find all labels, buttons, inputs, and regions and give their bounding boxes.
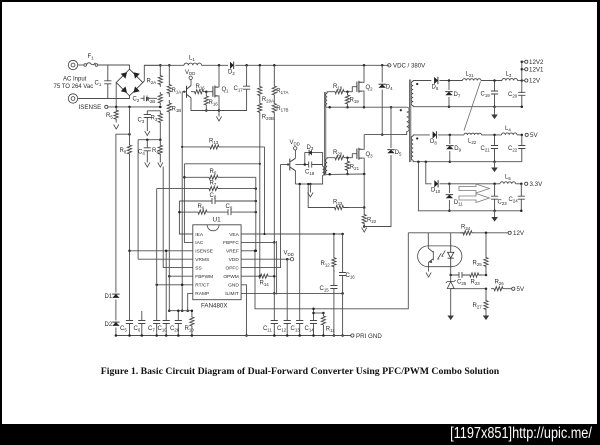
wire R3 to node	[159, 124, 161, 140]
resistor R3	[158, 111, 162, 124]
junction R2B bottom	[159, 106, 162, 109]
resistor R20	[334, 156, 345, 160]
diode D8 body	[433, 131, 437, 138]
ground zener	[447, 316, 454, 321]
wire D5 upper	[390, 107, 392, 148]
wire pin FBPWM	[169, 275, 193, 277]
wire C17 upper	[246, 65, 248, 82]
wire R1B down to FBPWM	[168, 115, 170, 276]
junction D4 rail	[381, 64, 384, 67]
wire primary top	[322, 165, 324, 167]
wire R16v to loop	[205, 106, 207, 111]
wire pin ILIMIT	[241, 292, 343, 294]
wire pin VDD	[241, 258, 287, 260]
wire opto to primary feedback	[255, 233, 408, 309]
wire D7 lower	[448, 97, 450, 107]
junction C21 top	[493, 134, 496, 137]
capacitor C23	[491, 184, 498, 211]
resistor R13	[205, 145, 224, 149]
capacitor C20	[518, 92, 525, 106]
diode D1 body	[112, 294, 119, 298]
wire 12V stub	[522, 80, 525, 82]
coupling diagonal L21-L22	[464, 82, 481, 131]
wire pin RT/CT	[157, 284, 193, 286]
ground opto	[426, 273, 431, 278]
wire R7 row right	[223, 188, 256, 190]
wire sec upper top to R18	[327, 92, 334, 94]
junction R3 bottom	[159, 139, 162, 142]
resistor R1B	[167, 100, 171, 115]
wire R8 to C5	[129, 156, 131, 319]
wire Q2 source to primary	[364, 106, 407, 108]
junction R21 bottom	[346, 173, 349, 176]
gate transformer primary body	[323, 166, 324, 175]
junction sec upper bottom	[328, 106, 331, 109]
junction D9 top	[449, 134, 452, 137]
opto phototransistor	[428, 240, 433, 272]
junction rail R1A	[168, 64, 171, 67]
resistor R27	[484, 289, 488, 312]
wire opto transistor lead	[427, 233, 429, 240]
resistor R9	[193, 210, 212, 214]
diode D9 body	[446, 146, 453, 150]
junction Q2 source node	[363, 106, 366, 109]
junction rail x156.7	[155, 334, 158, 337]
junction rail x287.2	[286, 334, 289, 337]
wire Q4 emitter loop	[191, 98, 219, 111]
junction R26 node	[485, 287, 488, 290]
capacitor C1 body	[104, 65, 111, 99]
watermark text	[450, 425, 592, 443]
capacitor C9	[212, 209, 256, 215]
wire Q3 source to R23 node	[363, 174, 365, 208]
wire Q5 emitter down	[294, 171, 296, 184]
capacitor C11	[271, 318, 278, 336]
wire ground rail	[116, 335, 351, 337]
wire pin VRMS	[138, 258, 193, 260]
capacitor C4	[144, 140, 151, 163]
junction C20 return	[521, 105, 524, 108]
junction D4 primary bottom	[381, 133, 384, 136]
junction 12V1	[521, 68, 524, 71]
wire C14 up	[313, 309, 315, 318]
mosfet Q1 body	[213, 86, 218, 98]
junction C24 bottom	[520, 210, 523, 213]
junction 3.3V tap left	[417, 160, 420, 163]
ground R22	[362, 228, 367, 233]
mosfet Q3 body	[357, 148, 362, 160]
junction sec lower bottom	[328, 173, 331, 176]
capacitor C22	[518, 135, 525, 162]
junction C19 top	[493, 79, 496, 82]
gate transformer T2 core	[325, 92, 326, 176]
junction rail x178.3	[177, 334, 180, 337]
junction C21 bottom	[493, 160, 496, 163]
terminal 3.3V out	[525, 182, 528, 185]
junction R16v top	[205, 90, 208, 93]
capacitor C12	[284, 318, 291, 336]
wire terminal1 to fuse	[78, 64, 84, 66]
terminal VDD pfc driver	[189, 76, 192, 79]
junction rail x115.9	[115, 334, 118, 337]
wire sec lower top to R20	[327, 158, 334, 159]
wire D3 to ground rail	[115, 328, 117, 336]
inductor L21 body	[463, 79, 482, 81]
junction rail x313.5	[312, 334, 315, 337]
wire pin IAC	[184, 177, 192, 242]
junction GND rail	[245, 334, 248, 337]
wire Q4 base feed long	[181, 92, 183, 311]
wire R23 right	[349, 207, 365, 209]
wire 3.3V row	[449, 183, 500, 185]
junction R21 top	[346, 156, 349, 159]
wire 12V riser	[521, 62, 523, 93]
wire bridge right vertex to top rail	[143, 65, 161, 82]
wire Q3 drain	[362, 135, 364, 150]
junction VREF feedback	[254, 250, 257, 253]
ground 3.3V return	[491, 217, 498, 222]
terminal VDD main	[290, 258, 293, 261]
junction rail x191.9	[191, 334, 194, 337]
junction D5 top	[390, 106, 393, 109]
wire FBPFC to ILIMIT	[273, 242, 275, 293]
terminal 12V out	[525, 79, 528, 82]
junction D11 bottom	[448, 210, 451, 213]
junction C16 VEA	[341, 233, 344, 236]
wire C15 to rail	[333, 296, 335, 336]
wire R27 bottom	[485, 312, 487, 316]
resistor R16 b	[204, 92, 208, 106]
resistor R23 fb	[467, 273, 483, 277]
wire R18 to Q2 gate	[345, 87, 357, 92]
phase dot secondary 12V	[416, 83, 418, 85]
junction C16 rail	[341, 334, 344, 337]
wire to C11	[273, 293, 275, 318]
ground R4	[158, 163, 163, 168]
wire sec12 top	[413, 81, 431, 82]
wire R6 row	[184, 176, 204, 178]
AC input terminal 2	[68, 94, 77, 103]
resistor R4	[158, 140, 162, 163]
ground 12V return	[491, 115, 498, 120]
wire R23 left	[308, 184, 329, 208]
wire gnd 3.3V stub	[494, 211, 496, 217]
junction FBPWM tap	[168, 275, 171, 278]
ISENSE terminal	[105, 105, 108, 108]
wire rail to R2A	[159, 65, 161, 73]
wire 12V2 stub	[522, 61, 525, 63]
inductor L1 body	[184, 63, 202, 65]
terminal 5V out	[525, 133, 528, 136]
wire D5 lower	[364, 155, 391, 227]
wire C16 to rail	[342, 294, 344, 336]
AC input terminal 2 inner	[71, 97, 75, 101]
resistor R1A	[167, 81, 171, 97]
phase dot primary	[400, 109, 402, 111]
op-amp U1 FAN480X outline	[193, 225, 241, 300]
resistor R19	[345, 92, 349, 108]
capacitor C8	[179, 198, 255, 204]
junction C8 right	[255, 200, 257, 203]
wire Q3 source	[362, 158, 364, 174]
terminal 12V2	[525, 60, 528, 63]
junction RTCT drop top	[181, 284, 184, 287]
junction base feed bus	[181, 309, 184, 312]
wire R16 to Q1 gate	[207, 91, 213, 93]
diode D10 body	[434, 180, 438, 187]
block arrow lower	[459, 194, 490, 203]
junction rail x323.4	[322, 334, 325, 337]
wire D11 lower	[448, 200, 450, 211]
capacitor C16	[339, 234, 346, 294]
gate transformer secondary upper body	[325, 93, 327, 107]
junction 12V node	[521, 79, 524, 82]
junction VDD node	[286, 258, 289, 261]
resistor R21	[345, 158, 349, 174]
wire pin ISENSE	[130, 250, 193, 252]
wire rail L1 to D2	[202, 64, 229, 66]
resistor R26	[491, 287, 506, 291]
wire D10 feed	[426, 162, 432, 184]
junction D7 bottom	[448, 105, 451, 108]
capacitor C18 body	[305, 162, 323, 168]
terminal VDC/380V	[388, 64, 391, 67]
wire opto LED bottom	[450, 267, 452, 275]
junction Q5 base	[287, 163, 289, 165]
resistor R11	[321, 313, 325, 336]
U1 notch	[207, 225, 219, 231]
junction RTCT C7	[155, 284, 158, 287]
junction bottom loop	[309, 183, 312, 186]
diode D7 body	[445, 92, 452, 96]
junction C13 loop	[298, 183, 301, 186]
resistor R7	[204, 187, 223, 191]
ground R5	[114, 125, 119, 130]
wire R13 left	[182, 146, 205, 148]
wire pin SS	[163, 167, 193, 268]
resistor R8	[127, 144, 131, 156]
wire sec upper bottom row	[327, 106, 364, 108]
block arrow upper	[459, 184, 490, 193]
wire R7 row left	[157, 188, 204, 190]
resistor R22	[362, 208, 366, 226]
junction R14 right	[273, 275, 276, 278]
junction C17 rail	[245, 64, 248, 67]
junction C23 bottom	[493, 210, 496, 213]
junction C22 top	[521, 134, 524, 137]
capacitor C5	[126, 318, 133, 336]
ground Q1 source	[216, 117, 221, 122]
secondary 5V body	[411, 136, 413, 160]
junction ISENSE-R2 string	[159, 106, 162, 109]
wire C7 line	[156, 189, 158, 318]
wire pin GND	[241, 285, 246, 336]
wire R20 to Q3 gate	[345, 154, 357, 158]
junction Q1 source loop	[218, 109, 221, 112]
diode D5 body	[387, 150, 394, 154]
resistor R14	[256, 274, 271, 278]
capacitor C17	[243, 82, 250, 94]
wire top rail left	[144, 64, 184, 66]
junction 12V2	[521, 61, 524, 64]
wire D9 lower	[449, 151, 451, 162]
wire gnd 5V stub	[494, 162, 496, 168]
junction R19 bottom	[346, 106, 349, 109]
wire C4R4 top	[138, 139, 160, 141]
terminal VDD pwm driver	[294, 147, 297, 150]
junction R13 left	[181, 146, 183, 148]
junction R19 top	[346, 90, 349, 93]
wire R6 row right	[223, 176, 256, 178]
wire ISENSE row	[108, 106, 160, 108]
wire R26 to 5V term	[506, 288, 512, 290]
capacitor C13	[296, 318, 303, 336]
wire D9 upper	[449, 135, 451, 144]
junction R7 right	[255, 187, 257, 190]
secondary 12V body	[411, 82, 413, 106]
wire D4 lower	[381, 90, 383, 135]
wire pin IEA	[179, 201, 192, 234]
capacitor C15	[330, 270, 337, 296]
wire Q1 drain	[217, 65, 220, 87]
resistor R5	[114, 107, 118, 123]
junction rail x274.3	[273, 334, 276, 337]
opto light arrows	[438, 251, 446, 260]
wire L21 to L3	[481, 80, 502, 82]
capacitor C10	[163, 318, 170, 336]
wire C18 row stub	[295, 164, 304, 166]
capacitor C14	[310, 318, 317, 336]
terminal 12V1	[525, 68, 528, 71]
junction C14 link	[312, 312, 315, 315]
wire filler vertical	[276, 241, 278, 295]
wire VDD2 to Q5 collector	[294, 150, 296, 158]
ground 5V return	[491, 168, 498, 173]
junction zener top	[449, 274, 452, 277]
terminal 5V fb	[512, 287, 515, 290]
junction VEA R12	[333, 233, 336, 236]
optocoupler U2 body	[418, 246, 462, 267]
junction rail x166.2	[165, 334, 168, 337]
resistor R2A	[158, 73, 162, 87]
junction C18 left	[304, 163, 307, 166]
wire 5V return	[413, 160, 522, 162]
resistor R20A	[258, 65, 262, 99]
junction fbrow R20B	[259, 163, 261, 165]
wire R20B down to R14	[259, 116, 261, 276]
wire C6 stub	[141, 311, 143, 318]
wire R17B long down	[273, 113, 275, 242]
junction Q2 drain rail	[363, 64, 366, 67]
wire fb left drop	[183, 164, 185, 178]
resistor R2B	[158, 92, 162, 105]
resistor R17B	[272, 97, 276, 113]
wire Q4 base	[182, 91, 186, 93]
wire terminal2 to bridge bottom	[78, 96, 130, 99]
resistor R10	[190, 311, 194, 336]
wire gnd 12V stub	[494, 107, 496, 115]
junction C14 fb line	[312, 308, 315, 311]
wire 12V return	[413, 106, 522, 107]
phase dot secondary 5V	[416, 137, 418, 139]
resistor R20B	[258, 100, 262, 117]
AC input terminal F1 side	[68, 60, 77, 69]
wire R24 row left	[408, 232, 465, 234]
junction rail R2A	[159, 64, 162, 67]
junction C9 right	[255, 211, 257, 214]
wire zener upper	[450, 275, 452, 282]
resistor R23	[330, 205, 349, 209]
capacitor C6	[138, 318, 145, 336]
terminal 12V fb	[508, 231, 511, 234]
diode D4 body	[379, 84, 386, 88]
wire fb right bus	[255, 177, 257, 251]
junction C26 bus	[177, 309, 180, 312]
wire R13 riser	[264, 147, 266, 234]
terminal PRI GND	[351, 334, 354, 337]
bridge diode top-left	[121, 72, 127, 78]
wire VDD to C12	[286, 259, 288, 318]
junction C10 isense row	[165, 250, 168, 253]
wire rail D2 to VDC	[235, 64, 389, 66]
wire FBPWM tap to bus	[168, 276, 170, 311]
junction R25 bottom	[485, 274, 488, 277]
junction C23 top	[493, 183, 496, 186]
wire C3 top	[147, 110, 160, 112]
diode D3s body	[309, 150, 312, 156]
wire R24 to 12V term	[475, 232, 508, 234]
wire R13 right	[224, 146, 265, 148]
bridge diode bottom-right	[134, 86, 140, 92]
wire loop to primary bottom	[310, 175, 322, 184]
wire VRMS riser	[137, 140, 139, 260]
wire emitter bottom loop	[295, 183, 310, 185]
capacitor C21	[491, 135, 498, 162]
junction R20A rail	[259, 64, 262, 67]
wire D6 to L21	[439, 80, 462, 82]
junction R9 left	[178, 211, 181, 214]
capacitor C19	[491, 81, 498, 107]
junction D9 bottom	[449, 160, 452, 163]
junction R17A rail	[273, 64, 276, 67]
wire fb top row	[184, 163, 259, 165]
wire zener lower	[450, 289, 452, 316]
junction ILIMIT C16	[341, 292, 344, 295]
junction ILIMIT line	[273, 292, 276, 295]
diode D6 body	[434, 77, 438, 84]
wire L4 to 5V	[517, 134, 523, 136]
junction Q4 base	[183, 91, 185, 93]
inductor L3 body	[502, 79, 518, 81]
diode D11 body	[446, 195, 453, 199]
wire D11 upper	[448, 184, 450, 193]
zener TL431	[446, 280, 456, 283]
junction R6 row left	[183, 176, 185, 178]
fuse F1	[84, 64, 87, 67]
junction R10 bus	[191, 309, 194, 312]
junction R16v bottom	[205, 109, 208, 112]
wire pin OPWM stub	[241, 275, 256, 277]
wire base feed row	[281, 164, 290, 166]
junction rail x141.8	[141, 334, 144, 337]
capacitor C3	[144, 111, 151, 131]
junction R23 riser top	[307, 183, 309, 185]
junction Q1 drain rail	[218, 64, 221, 67]
wire Q1 source	[217, 96, 220, 111]
junction C4 top	[146, 138, 149, 141]
wire Q2 source	[362, 91, 364, 107]
wire loop gnd stub	[309, 184, 311, 193]
